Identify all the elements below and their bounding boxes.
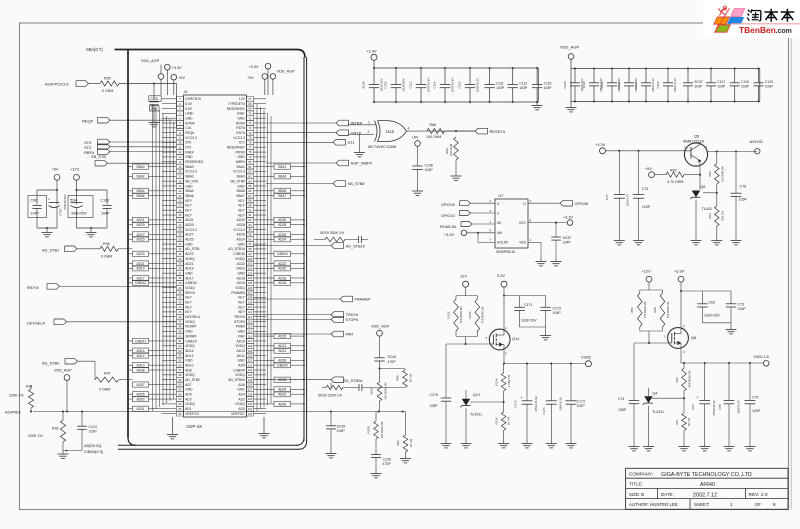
power terminal +5V (Q5 base) (645, 166, 666, 177)
net label AD28 (right of J4) (266, 222, 305, 227)
svg-text:Q14: Q14 (512, 337, 519, 341)
net label AD24 (right of J4) (266, 237, 305, 242)
resistor R66 100 OHM (426, 123, 445, 139)
svg-text:43: 43 (179, 300, 182, 304)
svg-text:10UF/6.3V: 10UF/6.3V (476, 78, 480, 92)
J4 pin row 30/96: AD25 / AD24 (177, 237, 254, 242)
svg-text:SB_STB: SB_STB (185, 179, 198, 183)
svg-text:100: 100 (248, 257, 253, 261)
svg-text:C/BE2#: C/BE2# (185, 281, 197, 285)
svg-text:123: 123 (248, 368, 253, 372)
svg-text:KEY: KEY (238, 296, 245, 300)
svg-text:78: 78 (249, 150, 252, 154)
svg-text:KEY: KEY (185, 305, 192, 309)
svg-text:94: 94 (249, 228, 252, 232)
J4 pin row 21/87: SBA6 / SBA7 (177, 193, 254, 198)
J4 pin row 58/124: VDDQ / VDDQ (177, 372, 254, 377)
J4 pin row 48/114: PERR# / PME# (177, 324, 254, 329)
svg-text:19: 19 (179, 184, 182, 188)
svg-text:+3.3V: +3.3V (563, 215, 573, 219)
svg-text:GND: GND (185, 271, 193, 275)
svg-text:AF640: AF640 (700, 482, 715, 488)
svg-text:IRDY#: IRDY# (27, 285, 40, 290)
signal flag AD_STB1 (42, 246, 100, 253)
svg-text:104P: 104P (425, 168, 434, 172)
svg-text:AD15: AD15 (237, 339, 245, 343)
net label AD08 (left of J4) (127, 367, 162, 372)
svg-text:67: 67 (249, 97, 252, 101)
J4 pin row 63/129: AD3 / AD2 (177, 397, 254, 402)
power terminal +3.3V (Q8 drain) (674, 268, 685, 327)
svg-text:U7: U7 (499, 194, 504, 198)
svg-text:40: 40 (179, 286, 182, 290)
svg-text:AD31: AD31 (185, 218, 193, 222)
svg-text:120: 120 (248, 354, 253, 358)
signal flag RBF# (84, 149, 177, 155)
svg-text:35: 35 (179, 262, 182, 266)
resistor SR21 100 OHM 1% (370, 369, 388, 412)
svg-text:C171: C171 (524, 303, 532, 307)
svg-text:0 OHM: 0 OHM (102, 89, 113, 93)
svg-text:C124: C124 (89, 425, 97, 429)
svg-text:50: 50 (179, 334, 182, 338)
J4 pin row 41/107: IRDY# / FRAME# (177, 290, 254, 295)
svg-text:AGP/PCICLK: AGP/PCICLK (45, 82, 69, 87)
J4 pin row 29/95: AD27 / AD26 (177, 232, 254, 237)
J4 pin row 14/80: RESERVED / WBF# (177, 159, 254, 164)
svg-text:VDDQ: VDDQ (235, 373, 245, 377)
svg-text:22: 22 (179, 199, 182, 203)
svg-text:S#: S# (497, 221, 501, 225)
svg-text:71: 71 (249, 116, 252, 120)
svg-text:MC74VHC1GB8: MC74VHC1GB8 (368, 145, 396, 149)
svg-text:SB_STB#: SB_STB# (230, 179, 245, 183)
capacitor C108 104P (412, 163, 433, 195)
svg-text:56: 56 (179, 363, 182, 367)
svg-text:TL431L: TL431L (470, 413, 483, 417)
svg-text:KEY: KEY (185, 301, 192, 305)
svg-text:VCC3.3: VCC3.3 (233, 170, 245, 174)
svg-text:SBA2: SBA2 (185, 175, 194, 179)
resistor R55 0 OHM (100, 77, 184, 129)
svg-text:KEY: KEY (185, 208, 192, 212)
J4 pin row 12/78: RBF# / PIPE# (177, 150, 254, 155)
svg-text:VDDQ: VDDQ (185, 257, 195, 261)
svg-text:VDDQ: VDDQ (235, 344, 245, 348)
svg-text:GND: GND (237, 155, 245, 159)
J4 pin row 23/89: KEY / KEY (177, 203, 254, 208)
svg-text:VDDQ: VDDQ (235, 257, 245, 261)
svg-text:12V: 12V (460, 273, 467, 278)
svg-text:AD_STB0#: AD_STB0# (228, 378, 245, 382)
power terminal +12V (Q8) (640, 268, 663, 290)
svg-text:715 OHM 1%: 715 OHM 1% (666, 301, 670, 318)
net label C/BE#2 (left of J4) (127, 280, 162, 285)
svg-text:R92: R92 (52, 427, 59, 431)
J4 pin row 38/104: AD17 / AD18 (177, 276, 254, 281)
svg-text:+3.3V: +3.3V (366, 49, 377, 54)
svg-text:C110: C110 (150, 97, 158, 101)
capacitor C110 (DNI) (149, 82, 162, 126)
resistor R64 10K 1% (708, 193, 725, 245)
svg-text:110: 110 (248, 305, 253, 309)
svg-text:464 OHM 1%: 464 OHM 1% (688, 370, 692, 387)
Q8 gate node wire (634, 331, 668, 344)
resistor R97 0 OHM (95, 371, 133, 391)
net label AD01 (left of J4) (127, 406, 162, 411)
svg-text:ST1: ST1 (348, 140, 355, 145)
svg-text:125: 125 (248, 378, 253, 382)
svg-text:32: 32 (179, 247, 182, 251)
svg-text:KEY: KEY (238, 310, 245, 314)
J4 pin row 33/99: AD23 / C/BE3# (177, 251, 254, 256)
svg-text:C74: C74 (618, 397, 624, 401)
svg-text:34: 34 (179, 257, 182, 261)
net label AD15 (right of J4) (266, 334, 305, 339)
resistor R60 715 OHM 1% (653, 290, 670, 331)
svg-text:RBF#: RBF# (185, 150, 194, 154)
J4 pin row 35/101: AD21 / AD22 (177, 261, 254, 266)
signal flag AD_STB0# (254, 377, 364, 383)
svg-text:AD12: AD12 (137, 354, 145, 358)
svg-text:AD27: AD27 (185, 233, 193, 237)
svg-text:59: 59 (179, 378, 182, 382)
svg-text:C114: C114 (433, 81, 437, 88)
svg-text:14: 14 (179, 160, 182, 164)
svg-text:+3.3V: +3.3V (444, 233, 454, 237)
svg-text:44: 44 (179, 305, 182, 309)
svg-text:VDDQ: VDDQ (185, 402, 195, 406)
net label AD30 (right of J4) (266, 217, 305, 222)
svg-text:R137: R137 (447, 311, 451, 318)
J4 pin row 40/106: VDDQ / VDDQ (177, 285, 254, 290)
resistor R61 1K 1% (675, 413, 691, 451)
svg-text:GND: GND (237, 116, 245, 120)
svg-text:C113: C113 (519, 82, 527, 86)
SBA[0:7] / AD[00:31] / C/BE#[0:3] bus ring (84, 47, 307, 454)
svg-text:R134: R134 (495, 378, 499, 385)
svg-text:62: 62 (179, 392, 182, 396)
svg-text:C73: C73 (738, 302, 744, 306)
svg-text:122: 122 (248, 363, 253, 367)
svg-text:R96: R96 (103, 242, 110, 246)
capacitor C65 10UF/6.3V (718, 363, 740, 451)
svg-text:5.0V: 5.0V (185, 102, 193, 106)
svg-text:SBA7: SBA7 (278, 194, 286, 198)
resistor R100 100 OHM 1% (367, 412, 385, 455)
J4 pin row 60/126: AD7 / AD6 (177, 382, 254, 387)
net label AD23 (left of J4) (127, 251, 162, 256)
svg-text:28: 28 (179, 228, 182, 232)
svg-text:SHEET:: SHEET: (694, 502, 709, 507)
svg-text:C173: C173 (577, 399, 585, 403)
signal flag RESET# (475, 128, 506, 134)
svg-text:AD24: AD24 (237, 238, 245, 242)
signal flag REQ# (82, 117, 177, 123)
svg-text:R66: R66 (430, 123, 437, 127)
svg-text:VDDQ: VDDQ (185, 373, 195, 377)
svg-text:220UF/16V: 220UF/16V (63, 194, 67, 209)
net label SBA3 (right of J4) (266, 174, 305, 179)
svg-text:AD22: AD22 (237, 262, 245, 266)
svg-text:11: 11 (179, 145, 182, 149)
net A3VOD output (707, 139, 763, 154)
svg-text:715 OHM 1%: 715 OHM 1% (481, 306, 485, 323)
svg-text:+5V: +5V (247, 76, 254, 80)
signal flag INTR# (266, 120, 363, 126)
J4 pin row 27/93: AD29 / AD28 (177, 222, 254, 227)
net label AD00 (right of J4) (266, 401, 305, 406)
capacitor C173 102P (output) (566, 364, 586, 448)
svg-text:AD13: AD13 (278, 344, 286, 348)
svg-text:C121: C121 (617, 81, 621, 88)
svg-text:VCC3.3: VCC3.3 (233, 136, 245, 140)
svg-text:SBA[0:7]: SBA[0:7] (86, 47, 103, 52)
capacitor C78 105P (731, 152, 748, 245)
signal flag AGP/PCICLK (45, 81, 100, 87)
svg-text:AD19: AD19 (185, 267, 193, 271)
svg-text:AD23: AD23 (185, 252, 193, 256)
net label C/BE#0 (right of J4) (266, 363, 305, 368)
transistor Q5 MMBT2222A (683, 134, 708, 166)
svg-text:AD9: AD9 (238, 363, 245, 367)
svg-text:AD10: AD10 (137, 364, 145, 368)
capacitor C75 103P (745, 363, 761, 451)
svg-text:USB+: USB+ (185, 112, 194, 116)
net label AD12 (left of J4) (127, 353, 162, 358)
svg-text:121: 121 (248, 358, 253, 362)
svg-text:AD15: AD15 (278, 334, 286, 338)
svg-text:69: 69 (249, 107, 252, 111)
capacitor C74 135P (618, 343, 640, 451)
capacitors C94 / C106 (+12V rail) (68, 180, 112, 237)
signal flag AGP_WBF# (266, 160, 373, 166)
svg-text:74: 74 (249, 131, 252, 135)
svg-text:W25P05/10: W25P05/10 (496, 250, 515, 254)
svg-text:STOP#: STOP# (234, 320, 245, 324)
net label AD27 (left of J4) (127, 232, 162, 237)
svg-text:R59: R59 (630, 307, 634, 313)
svg-text:SIZE: B: SIZE: B (629, 492, 644, 497)
J4 pin row 37/103: GND / GND (177, 271, 254, 276)
svg-text:AD_STB0#: AD_STB0# (343, 378, 363, 383)
svg-text:SBA3: SBA3 (236, 175, 245, 179)
signal flag DEVSEL# (27, 319, 177, 325)
svg-text:RESERVED: RESERVED (227, 146, 246, 150)
signal flag FRAME# (254, 296, 372, 302)
MOSFET Q8 (664, 324, 696, 354)
TBenBen.com watermark logo (714, 6, 800, 35)
svg-text:C63: C63 (709, 300, 715, 304)
net label SBA6 (left of J4) (127, 193, 162, 198)
svg-text:R65: R65 (708, 171, 712, 177)
U7 input flags GPIO09/GPIO10/ROMCS# (440, 199, 495, 229)
svg-text:OVRCNT#: OVRCNT# (185, 97, 201, 101)
signal flag GPIO08 (528, 199, 588, 206)
svg-text:GND: GND (185, 242, 193, 246)
svg-text:VDDQ: VDDQ (185, 320, 195, 324)
svg-text:SC37: SC37 (694, 80, 703, 84)
svg-text:SC39: SC39 (337, 425, 346, 429)
svg-text:GIGA-BYTE TECHNOLOGY CO.,LTD: GIGA-BYTE TECHNOLOGY CO.,LTD (661, 472, 752, 478)
capacitor C126 470P (371, 455, 392, 478)
svg-text:104P: 104P (101, 212, 110, 216)
svg-text:103P: 103P (752, 409, 761, 413)
svg-text:SB_STB#: SB_STB# (348, 181, 366, 186)
svg-text:+: + (70, 198, 72, 202)
svg-text:AD_STB0: AD_STB0 (185, 378, 200, 382)
svg-text:C77: C77 (605, 194, 609, 200)
svg-text:107: 107 (248, 291, 253, 295)
U12 output wire pin 4 (407, 126, 476, 131)
svg-text:AD21: AD21 (137, 262, 145, 266)
svg-text:61: 61 (179, 388, 182, 392)
svg-text:USB-: USB- (237, 112, 245, 116)
svg-text:C176: C176 (514, 400, 518, 407)
svg-text:0 OHM: 0 OHM (99, 388, 110, 392)
svg-text:INTR#: INTR# (351, 121, 363, 126)
svg-text:220K 1%: 220K 1% (28, 434, 43, 438)
J4 pin row 66/132: VREFCG / VREFGC (177, 411, 254, 416)
resistor R91 220K 1% (9, 385, 34, 412)
svg-text:66: 66 (179, 412, 182, 416)
svg-text:AD19: AD19 (137, 267, 145, 271)
svg-text:TL431L: TL431L (652, 410, 665, 414)
svg-text:R62: R62 (675, 377, 679, 383)
svg-text:88: 88 (249, 199, 252, 203)
svg-text:STOP#: STOP# (346, 317, 360, 322)
net AGPREF (horizontal wire) (5, 409, 406, 414)
svg-text:OF: OF (755, 502, 761, 507)
svg-text:104: 104 (248, 276, 253, 280)
svg-text:C96: C96 (31, 199, 38, 203)
svg-text:89: 89 (249, 203, 252, 207)
svg-text:132: 132 (248, 412, 253, 416)
signal flag IRDY# (27, 284, 177, 290)
svg-text:AD24: AD24 (278, 238, 286, 242)
svg-text:AD27: AD27 (137, 233, 145, 237)
net label SBA7 (right of J4) (266, 193, 305, 198)
svg-text:DEVSEL#: DEVSEL# (27, 320, 46, 325)
svg-text:ROMCS#: ROMCS# (440, 225, 457, 229)
svg-text:R61: R61 (675, 419, 679, 425)
svg-text:AD26: AD26 (278, 233, 286, 237)
net label AD21 (left of J4) (127, 261, 162, 266)
svg-text:C119: C119 (741, 80, 749, 84)
svg-text:AD06: AD06 (278, 378, 286, 382)
svg-text:GPIO08: GPIO08 (575, 202, 589, 206)
svg-text:AD29: AD29 (137, 223, 145, 227)
net label AD22 (right of J4) (266, 261, 305, 266)
capacitor C77 15U/6.3V (605, 151, 630, 245)
J4 pin row 31/97: GND / GND (177, 242, 254, 247)
svg-text:58: 58 (179, 373, 182, 377)
svg-text:C/BE3#: C/BE3# (233, 252, 245, 256)
svg-text:72: 72 (249, 121, 252, 125)
resistor R92 220K 1% (28, 412, 82, 459)
J4 pin row 1/67: OVRCNT# / 12V (177, 96, 254, 101)
svg-text:SBA3: SBA3 (278, 175, 286, 179)
svg-text:SBA6: SBA6 (136, 194, 144, 198)
svg-text:RESERVED: RESERVED (227, 107, 246, 111)
svg-text:SBA4: SBA4 (185, 189, 194, 193)
signal flag AD_STB0 (42, 358, 95, 379)
svg-text:AD01: AD01 (137, 407, 145, 411)
svg-text:103P: 103P (717, 85, 726, 89)
net label SBA1 (right of J4) (266, 164, 305, 169)
J4 pin row 42/108: KEY / KEY (177, 295, 254, 300)
svg-text:RESERVED: RESERVED (185, 160, 204, 164)
capacitor SC39 104P (326, 412, 346, 458)
svg-text:AD28: AD28 (278, 223, 286, 227)
svg-text:114: 114 (248, 325, 253, 329)
svg-text:AD02: AD02 (278, 393, 286, 397)
J4 pin row 22/88: KEY / KEY (177, 198, 254, 203)
svg-text:SC36: SC36 (362, 81, 366, 89)
net label AD18 (right of J4) (266, 275, 305, 280)
svg-text:SERR#: SERR# (185, 334, 196, 338)
J4 pin row 54/120: AD12 / AD11 (177, 353, 254, 358)
svg-text:C/BE#0: C/BE#0 (277, 364, 288, 368)
svg-text:91: 91 (249, 213, 252, 217)
ground below J4 (right) (259, 417, 270, 438)
svg-text:92: 92 (249, 218, 252, 222)
svg-text:Q8: Q8 (691, 336, 696, 340)
svg-text:SBA5: SBA5 (278, 189, 286, 193)
svg-text:5.0V: 5.0V (185, 107, 193, 111)
svg-text:135P: 135P (618, 408, 627, 412)
J4 pin row 11/77: ST2 / RESERVED (177, 145, 254, 150)
svg-text:1.05K 1%: 1.05K 1% (507, 374, 511, 387)
J4 pin row 2/68: 5.0V / TYPEDET# (177, 101, 254, 106)
svg-text:76: 76 (249, 141, 252, 145)
svg-text:TBenBen: TBenBen (739, 25, 776, 35)
resistor R98 1K 1% (380, 369, 413, 388)
svg-text:102P: 102P (577, 404, 586, 408)
svg-text:18: 18 (179, 179, 182, 183)
svg-text:Q5: Q5 (694, 134, 699, 139)
shunt regulator Q4 TL431L (643, 343, 665, 451)
svg-text:AD20: AD20 (278, 267, 286, 271)
svg-text:SBA1: SBA1 (278, 165, 286, 169)
svg-text:112: 112 (248, 315, 253, 319)
svg-text:KEY: KEY (238, 305, 245, 309)
J4 pin row 43/109: KEY / KEY (177, 300, 254, 305)
svg-text:10UF/6.3V: 10UF/6.3V (736, 400, 740, 414)
J4 pin row 62/128: AD5 / AD4 (177, 392, 254, 397)
svg-text:10UF/6.3V: 10UF/6.3V (673, 78, 677, 92)
J4 pin row 13/79: GND / GND (177, 154, 254, 159)
svg-text:+5V: +5V (52, 166, 59, 171)
svg-text:SBA5: SBA5 (236, 189, 245, 193)
net label SBA2 (left of J4) (127, 174, 162, 179)
svg-text:C122: C122 (656, 81, 660, 88)
svg-text:96: 96 (249, 237, 252, 241)
svg-text:IRDY#: IRDY# (185, 291, 195, 295)
svg-text:ST0: ST0 (185, 141, 191, 145)
J4 pin row 19/85: GND / GND (177, 184, 254, 189)
svg-text:KEY: KEY (238, 301, 245, 305)
svg-text:60: 60 (179, 383, 182, 387)
svg-text:C/BE#[0:3]: C/BE#[0:3] (84, 449, 103, 454)
svg-text:AD11: AD11 (237, 354, 245, 358)
svg-text:116: 116 (248, 334, 253, 338)
svg-text:GND: GND (237, 184, 245, 188)
svg-text:VCC3.3: VCC3.3 (185, 228, 197, 232)
signal flag AD_STB1# (254, 243, 366, 249)
svg-text:220K 1%: 220K 1% (9, 393, 24, 397)
svg-text:PIPE#: PIPE# (235, 150, 245, 154)
